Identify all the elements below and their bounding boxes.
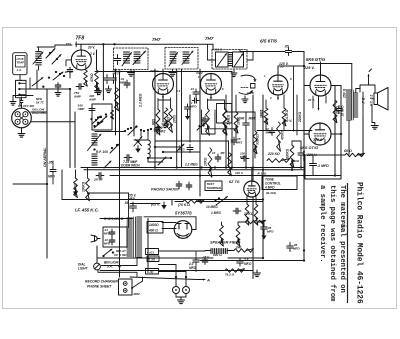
trimmer cap 1 <box>46 49 55 59</box>
cap 7.25 <box>124 157 127 159</box>
wire v5 right <box>331 85 341 87</box>
diode small box <box>251 84 256 89</box>
res screen <box>333 100 337 123</box>
cap 20mfd <box>195 257 197 260</box>
ground left column <box>12 99 14 102</box>
svg-text:6K6 GT/G: 6K6 GT/G <box>306 57 326 62</box>
svg-text:68Ω: 68Ω <box>152 118 156 125</box>
svg-text:7F8: 7F8 <box>76 36 85 42</box>
cap 400 <box>97 88 99 91</box>
svg-text:MFD: MFD <box>267 230 274 234</box>
tube V7 7X7 detector <box>244 181 260 197</box>
wire v x200 <box>199 69 201 196</box>
wire y270 <box>100 270 253 272</box>
ground pilot <box>180 297 182 300</box>
wire 100k left <box>87 168 89 179</box>
wire y155 out <box>300 154 345 156</box>
tube V4 6T6 <box>268 75 288 95</box>
band switch contacts <box>18 82 20 84</box>
res 100K left <box>86 178 90 201</box>
arrow V6 grid <box>318 102 320 110</box>
IF3 coil primary <box>218 54 227 67</box>
svg-text:Philco Radio Model 46-1226: Philco Radio Model 46-1226 <box>355 182 363 304</box>
res v7 b <box>254 204 258 225</box>
wire plate lead 7F8 <box>80 44 82 50</box>
RF coil T1 <box>36 51 42 53</box>
RF tuning coil lower <box>92 153 97 155</box>
res 17k left <box>208 148 212 177</box>
junction dots <box>102 43 104 45</box>
cap phono b <box>188 182 190 185</box>
svg-text:68 Ω: 68 Ω <box>344 149 352 153</box>
svg-text:1ME6: 1ME6 <box>260 109 264 118</box>
cap osc box <box>91 106 93 109</box>
svg-text:330KΩ: 330KΩ <box>256 134 260 145</box>
svg-text:MF2: MF2 <box>113 71 119 75</box>
tube V1 7F8 <box>71 50 91 70</box>
wire v x232 <box>231 72 233 168</box>
svg-text:47KΩ: 47KΩ <box>90 73 94 83</box>
wire v x119 <box>119 72 121 278</box>
wire aer <box>52 161 54 165</box>
svg-text:.05: .05 <box>124 201 129 205</box>
svg-text:J062: J062 <box>133 292 140 296</box>
cap elec -15 <box>204 258 206 261</box>
gnd mid2 <box>164 121 166 124</box>
IF transformer box 2 <box>165 48 198 70</box>
trimmer cap 2 <box>52 55 61 65</box>
IF3 can right <box>233 52 244 67</box>
wire v x246 <box>245 112 247 121</box>
svg-text:5.3Ω: 5.3Ω <box>149 257 156 261</box>
svg-text:ON AERIAL: ON AERIAL <box>43 147 47 167</box>
svg-text:470KΩ: 470KΩ <box>281 129 285 141</box>
res 3.3K <box>74 178 78 198</box>
svg-text:2N MF: 2N MF <box>93 178 103 182</box>
speaker field coil <box>210 249 212 254</box>
svg-text:8 30Ω: 8 30Ω <box>291 159 300 163</box>
pt tap box3 <box>147 256 159 262</box>
IF3 can left <box>216 52 229 67</box>
gnd v4 left <box>233 70 235 73</box>
svg-text:(05 V.: (05 V. <box>151 203 160 207</box>
osc coil <box>148 140 150 158</box>
svg-text:6K6 GT/G: 6K6 GT/G <box>300 145 318 150</box>
svg-text:MFD: MFD <box>190 104 197 108</box>
cap 10mfd elec <box>217 154 219 157</box>
svg-text:.1 MFD: .1 MFD <box>317 164 329 168</box>
cap 100mmf <box>241 158 244 160</box>
wire v x30 <box>29 78 31 89</box>
svg-text:2 V.: 2 V. <box>89 52 96 56</box>
wire y66 det <box>278 65 304 67</box>
osc box <box>92 104 112 130</box>
arrow V4 cathode <box>277 95 279 100</box>
svg-text:240: 240 <box>238 117 245 121</box>
wire y203 <box>130 203 160 205</box>
title underline <box>347 183 349 303</box>
svg-text:6Z 7G: 6Z 7G <box>229 180 240 184</box>
switch V3 <box>198 125 200 127</box>
cap V2 small <box>192 100 195 102</box>
wire y130 <box>257 130 312 132</box>
svg-text:DOER WICH: DOER WICH <box>121 164 140 168</box>
cap 1MFD <box>312 160 314 164</box>
svg-text:20 V.: 20 V. <box>307 98 315 102</box>
wire v5 left <box>304 85 310 87</box>
output transformer core <box>350 90 352 120</box>
wire y260 right <box>200 260 304 262</box>
svg-text:250 Ω: 250 Ω <box>343 88 347 99</box>
antenna trap box <box>13 53 27 75</box>
wire double line AVC b <box>84 169 304 171</box>
svg-text:6-(C): 6-(C) <box>147 250 154 254</box>
arrow V3 cathode <box>210 94 212 99</box>
v3 lower box <box>201 110 203 134</box>
switch cluster c <box>55 71 57 73</box>
wire left y95 <box>13 95 33 97</box>
wire arrow up x367 <box>368 75 370 86</box>
res 470k upper <box>277 122 281 151</box>
wire y155 out2 <box>357 154 363 156</box>
tuning gang 2 <box>134 137 142 147</box>
svg-text:-15 V.: -15 V. <box>202 255 210 259</box>
svg-text:300 V.: 300 V. <box>283 119 292 123</box>
svg-text:PHONE SHEET: PHONE SHEET <box>87 285 112 289</box>
wire bus y175 <box>110 175 341 177</box>
wire out prim leads <box>348 121 350 156</box>
svg-text:5Y36T/G: 5Y36T/G <box>175 211 193 216</box>
res det 47k <box>282 108 286 126</box>
svg-text:6/5 6T/6: 6/5 6T/6 <box>260 39 277 44</box>
svg-text:HIGH MtG: HIGH MtG <box>32 111 47 115</box>
cap .05 234 <box>233 137 235 140</box>
cap 301 <box>300 150 302 154</box>
mid h y140 <box>134 139 148 141</box>
res mid 229 <box>228 153 232 176</box>
wire top right staple <box>360 85 375 92</box>
gnd det2 <box>262 236 267 240</box>
wire v5 top <box>320 64 322 76</box>
gnd ps1 <box>161 205 167 209</box>
svg-text:MFD: MFD <box>48 175 56 179</box>
res 47K osc <box>95 70 99 90</box>
band switch box <box>16 80 27 97</box>
res V3 b <box>223 109 227 135</box>
svg-text:20 V.: 20 V. <box>87 46 95 50</box>
svg-text:6: 6 <box>290 77 292 81</box>
osc arrows <box>158 157 166 165</box>
mid h y152 <box>163 151 200 153</box>
wire v x134 <box>133 72 135 137</box>
svg-text:4 MFD: 4 MFD <box>264 186 275 190</box>
svg-text:6-(3): 6-(3) <box>147 270 153 274</box>
svg-text:720 V.: 720 V. <box>313 138 323 142</box>
wire V3 res <box>207 99 209 109</box>
wire v x253b <box>252 197 254 279</box>
cap lf1 <box>111 229 113 232</box>
wire v x240 <box>239 50 241 53</box>
switch wiper left <box>32 78 43 87</box>
power transformer primary <box>127 217 132 219</box>
IF1 coil primary <box>124 51 130 53</box>
svg-text:MFD: MFD <box>178 148 185 152</box>
svg-text:MFD: MFD <box>266 131 272 135</box>
gnd bottom right <box>256 270 258 273</box>
IF1 coil secondary <box>134 51 140 53</box>
svg-text:(R-301): (R-301) <box>266 191 276 195</box>
wire v x62 <box>61 170 63 200</box>
svg-text:MF: MF <box>221 151 225 155</box>
loop aerial plug <box>12 108 32 128</box>
svg-text:222: 222 <box>65 43 72 47</box>
wire v x115 <box>115 69 117 135</box>
cap right low <box>289 243 291 247</box>
wire det res leads <box>265 100 267 108</box>
svg-text:2.2 MEG: 2.2 MEG <box>139 93 143 108</box>
svg-text:R.F. 100: R.F. 100 <box>96 150 108 154</box>
wire v x163 <box>162 95 164 123</box>
cap phono a <box>178 181 180 184</box>
svg-text:76.2 Ω: 76.2 Ω <box>225 273 235 277</box>
speaker <box>374 93 378 105</box>
svg-text:TERMINAL: TERMINAL <box>207 186 223 190</box>
cap 240mmf <box>245 120 247 124</box>
tube V8 5Y3 rectifier <box>174 221 192 239</box>
wire lamp <box>101 265 137 267</box>
res 330k <box>253 131 257 154</box>
wire y199 <box>62 199 263 201</box>
wire v x103 <box>102 45 104 100</box>
svg-text:10: 10 <box>212 151 216 155</box>
test terminal box <box>205 181 222 191</box>
cathode box <box>305 155 341 179</box>
svg-text:MFD: MFD <box>128 197 136 201</box>
wire v x335 <box>334 86 336 176</box>
cap 10mfd mid <box>271 128 273 131</box>
res 762 <box>225 269 245 273</box>
svg-text:MF2: MF2 <box>237 141 243 145</box>
power transformer secondary <box>137 216 142 218</box>
wire v x341 <box>340 86 342 180</box>
mid h y162 <box>148 161 163 163</box>
res det 1meg <box>264 108 268 124</box>
svg-text:6: 6 <box>222 87 224 91</box>
svg-text:J.A.: J.A. <box>17 68 22 72</box>
gnd V2 <box>157 125 159 128</box>
svg-text:(35 V.: (35 V. <box>128 194 136 198</box>
IF2 coil secondary <box>183 51 189 53</box>
svg-text:SPEAKER FIELD: SPEAKER FIELD <box>210 241 241 245</box>
band switch wiper <box>128 126 137 135</box>
res 1meg mid <box>223 109 227 135</box>
tube V3 7H7 <box>201 74 222 95</box>
diode curve arrow 2 <box>239 91 252 95</box>
cap v2 right <box>195 89 197 92</box>
osc wires <box>140 130 142 136</box>
IF3 core <box>228 52 232 54</box>
cap .02 v6 <box>338 106 340 109</box>
gnd g1 <box>108 86 110 89</box>
svg-text:MF2: MF2 <box>120 81 126 85</box>
svg-text:2.2 MEG: 2.2 MEG <box>184 163 198 167</box>
tube V6 6K6 lower <box>309 123 331 145</box>
wire res33 leads <box>75 170 77 178</box>
wire v x213 <box>212 44 214 49</box>
svg-text:The material presented on: The material presented on <box>338 185 346 293</box>
switch cluster b <box>111 147 113 149</box>
mid h y147 <box>155 146 182 148</box>
svg-text:MFD: MFD <box>36 97 42 101</box>
svg-text:400 Ω: 400 Ω <box>148 229 158 233</box>
cap .05 aer <box>52 166 54 170</box>
lamp dial <box>94 263 101 270</box>
diode curve arrow 1 <box>241 75 255 81</box>
cap v3 box <box>204 116 206 119</box>
cap 2NMF <box>96 175 99 177</box>
wire y218 left <box>100 218 133 220</box>
wire v x226 <box>225 125 227 168</box>
IF1 ground <box>130 70 132 73</box>
wire spk gnd <box>371 105 373 123</box>
wire det v7 <box>251 168 253 182</box>
wire pilot <box>175 277 177 287</box>
svg-text:LIGHT: LIGHT <box>78 267 89 271</box>
gnd g2 <box>98 88 100 91</box>
wire v x155 <box>154 69 156 168</box>
svg-text:5X 7C: 5X 7C <box>36 101 45 105</box>
svg-text:(70 K.Ω: (70 K.Ω <box>178 203 190 207</box>
wire y112 loop <box>31 111 47 113</box>
wire 20mfd <box>195 251 197 256</box>
svg-text:AMP: AMP <box>88 97 97 101</box>
wire double line AVC a <box>81 167 304 169</box>
trimmer 3 <box>104 161 111 168</box>
mid h y158 <box>148 157 171 159</box>
wire v x297 <box>296 95 298 135</box>
cap left gnd <box>57 83 59 86</box>
tube V5 6K6 upper <box>310 75 331 96</box>
cap .05 ps <box>132 202 134 206</box>
wire v x320 b <box>318 96 320 102</box>
svg-text:270Ω: 270Ω <box>173 115 177 124</box>
wire v7 down <box>246 196 248 204</box>
wire v x263 <box>262 95 264 258</box>
wire trap leads <box>19 75 21 81</box>
AC plug <box>91 235 95 242</box>
wire 170k <box>196 201 263 203</box>
wire v x148 <box>147 219 149 271</box>
svg-text:V.C. 6.2: V.C. 6.2 <box>370 95 374 106</box>
svg-text:.05: .05 <box>284 45 289 49</box>
svg-text:MFD: MFD <box>293 247 300 251</box>
wire v x293 <box>293 66 295 131</box>
wire gnd br <box>256 271 258 274</box>
arrow A <box>197 279 205 281</box>
tone control box <box>262 176 297 190</box>
svg-text:330KΩ: 330KΩ <box>286 148 290 159</box>
tuning gang 1 <box>88 134 102 151</box>
wire 292 leads <box>291 141 293 145</box>
wire y128 <box>205 128 235 130</box>
svg-text:220 KΩ: 220 KΩ <box>267 152 280 156</box>
cap .05 det2 <box>263 224 265 228</box>
svg-text:1: 1 <box>264 74 266 78</box>
res 170k <box>183 200 204 204</box>
wire band switch bus <box>95 131 124 133</box>
wire left y89 <box>26 88 70 90</box>
svg-text:MFD: MFD <box>104 232 110 236</box>
svg-text:10 MEG: 10 MEG <box>206 205 218 209</box>
res osc 30K <box>110 110 113 119</box>
wire bus y71 <box>95 71 232 73</box>
dots avc line <box>200 166 202 168</box>
res 22k <box>246 220 266 224</box>
wire v x172 <box>171 200 173 206</box>
svg-text:RECORD CHANGER: RECORD CHANGER <box>85 280 118 284</box>
wire V2 res <box>157 99 159 110</box>
wire v x47 <box>46 89 48 258</box>
wire v x304 <box>303 52 305 261</box>
svg-text:220KΩ: 220KΩ <box>298 111 302 123</box>
pt tap box1 <box>147 222 163 234</box>
wire pt taps <box>162 222 176 224</box>
wire out sec leads <box>355 89 357 94</box>
power transformer core <box>132 217 134 257</box>
svg-text:.05: .05 <box>48 161 53 165</box>
volume pot 1 <box>220 225 224 246</box>
svg-text:1 MEG: 1 MEG <box>227 114 231 125</box>
wire v x320 a <box>320 62 322 75</box>
cap 25mfd <box>239 258 241 261</box>
wire y258 field <box>97 257 213 259</box>
svg-text:100 V.: 100 V. <box>235 171 244 175</box>
res 68ohm <box>345 153 365 157</box>
IF3 coil secondary <box>235 54 244 67</box>
pt tap box2 <box>146 249 159 255</box>
cap 753 <box>76 86 79 88</box>
mid dots2 <box>154 146 156 148</box>
cap det <box>288 48 290 51</box>
cap 10MF <box>156 126 158 129</box>
svg-text:MFD: MFD <box>104 242 110 246</box>
wire v x253 <box>252 95 254 181</box>
cap .05 g1 <box>106 75 108 79</box>
res 47K <box>164 108 168 128</box>
svg-text:I.F. 455 K.C.: I.F. 455 K.C. <box>75 208 99 213</box>
RF tuning coil upper <box>92 133 97 135</box>
wire top left <box>37 46 55 48</box>
wire y258b <box>228 257 263 259</box>
svg-text:.02 MFD: .02 MFD <box>341 105 345 117</box>
cap .01 v2 <box>126 80 128 83</box>
wire v6 left <box>304 133 309 135</box>
svg-text:this page was obtained from: this page was obtained from <box>328 185 336 302</box>
res v7 a <box>245 204 249 225</box>
svg-text:1 MEG: 1 MEG <box>211 211 221 215</box>
svg-text:MFD: MFD <box>189 266 197 270</box>
wire top bus y45 <box>76 43 214 45</box>
band switch dots row <box>124 130 126 132</box>
pt tap box4 <box>146 269 159 275</box>
res V3 a <box>206 109 210 136</box>
wire v x190 <box>189 95 191 142</box>
osc shield box <box>155 140 229 142</box>
volume pot 2 <box>236 225 240 246</box>
svg-text:.05 MFD: .05 MFD <box>302 150 306 162</box>
svg-text:1400Ω: 1400Ω <box>149 223 159 227</box>
svg-text:225 V.: 225 V. <box>303 66 315 70</box>
